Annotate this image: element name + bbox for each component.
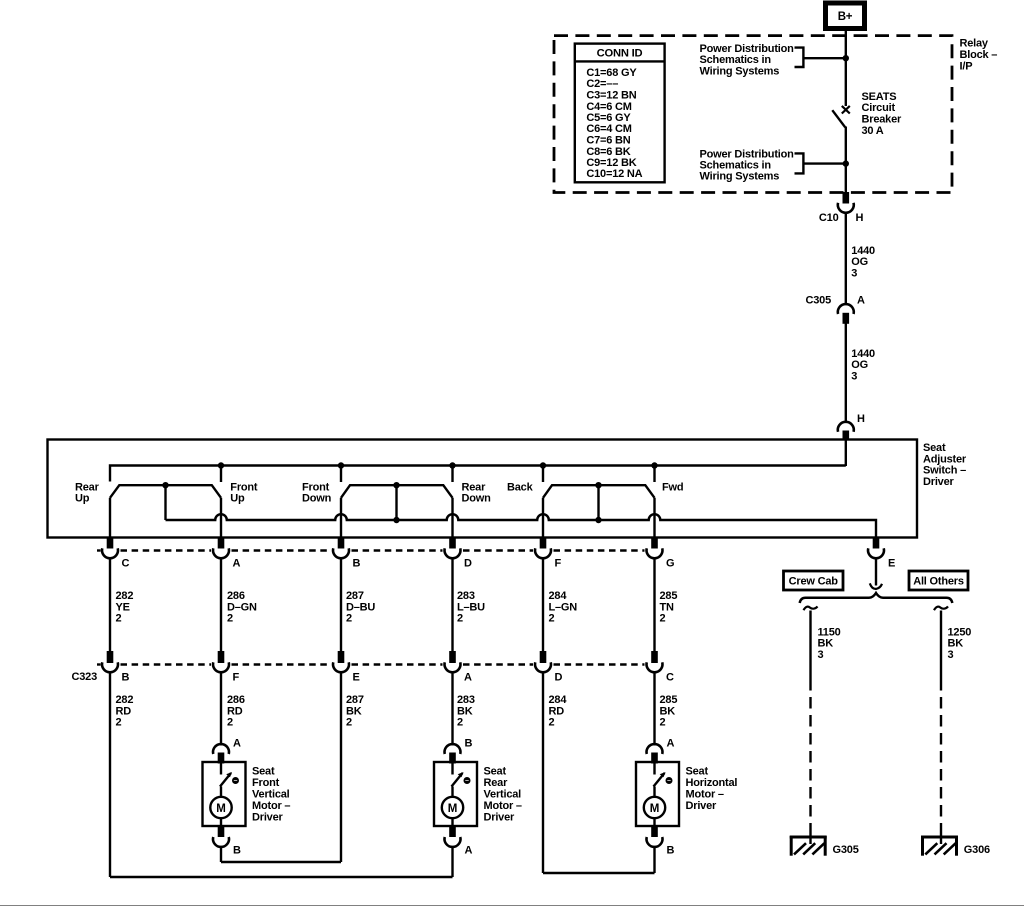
svg-text:C: C (666, 672, 674, 684)
svg-text:2: 2 (549, 613, 555, 625)
svg-text:A: A (464, 672, 472, 684)
svg-text:C8=6 BK: C8=6 BK (586, 146, 630, 158)
svg-text:BK: BK (948, 638, 964, 650)
svg-text:Down: Down (462, 493, 492, 505)
svg-text:BK: BK (818, 638, 834, 650)
svg-text:D–GN: D–GN (227, 601, 257, 613)
svg-text:3: 3 (851, 268, 857, 280)
svg-text:Down: Down (302, 493, 332, 505)
svg-text:G: G (666, 557, 674, 569)
svg-text:C: C (122, 557, 130, 569)
svg-text:Block –: Block – (960, 49, 998, 61)
svg-text:RD: RD (227, 705, 243, 717)
svg-text:Rear: Rear (484, 777, 509, 789)
svg-text:C4=6 CM: C4=6 CM (586, 101, 631, 113)
svg-text:M: M (650, 803, 659, 815)
svg-text:Motor –: Motor – (484, 800, 522, 812)
svg-text:A: A (233, 738, 241, 750)
svg-text:3: 3 (948, 649, 954, 661)
svg-text:C3=12 BN: C3=12 BN (586, 90, 636, 102)
svg-text:C1=68 GY: C1=68 GY (586, 67, 637, 79)
svg-text:B: B (122, 672, 130, 684)
svg-text:287: 287 (346, 694, 364, 706)
svg-text:B: B (233, 845, 241, 857)
svg-text:B: B (667, 845, 675, 857)
svg-text:Wiring Systems: Wiring Systems (700, 65, 780, 77)
svg-text:Horizontal: Horizontal (686, 777, 738, 789)
svg-text:Crew Cab: Crew Cab (789, 575, 839, 587)
svg-text:282: 282 (116, 590, 134, 602)
svg-text:TN: TN (660, 601, 675, 613)
svg-text:2: 2 (116, 613, 122, 625)
svg-text:E: E (888, 558, 895, 570)
svg-text:30 A: 30 A (862, 125, 884, 137)
svg-text:1440: 1440 (851, 245, 875, 257)
svg-text:C305: C305 (806, 295, 832, 307)
svg-text:283: 283 (457, 694, 475, 706)
svg-text:H: H (856, 212, 864, 224)
svg-text:A: A (857, 295, 865, 307)
svg-text:G305: G305 (833, 844, 859, 856)
svg-text:H: H (857, 413, 865, 425)
svg-text:Driver: Driver (252, 811, 284, 823)
svg-text:YE: YE (116, 601, 130, 613)
svg-text:2: 2 (346, 717, 352, 729)
svg-text:C9=12 BK: C9=12 BK (586, 157, 636, 169)
svg-text:C6=4 CM: C6=4 CM (586, 123, 631, 135)
svg-text:A: A (233, 557, 241, 569)
svg-text:2: 2 (346, 613, 352, 625)
svg-text:OG: OG (851, 256, 868, 268)
svg-text:Front: Front (252, 777, 280, 789)
svg-text:Fwd: Fwd (662, 481, 683, 493)
svg-text:B: B (465, 738, 473, 750)
svg-text:285: 285 (660, 590, 678, 602)
svg-text:Circuit: Circuit (862, 102, 896, 114)
svg-text:286: 286 (227, 590, 245, 602)
svg-text:RD: RD (549, 705, 565, 717)
svg-text:3: 3 (851, 371, 857, 383)
svg-text:B+: B+ (838, 11, 853, 23)
svg-text:All Others: All Others (913, 575, 964, 587)
svg-text:Adjuster: Adjuster (923, 453, 967, 465)
svg-text:OG: OG (851, 359, 868, 371)
svg-text:F: F (233, 672, 240, 684)
svg-text:Driver: Driver (923, 476, 955, 488)
svg-text:Front: Front (230, 481, 258, 493)
svg-text:BK: BK (346, 705, 362, 717)
svg-text:C2=––: C2=–– (586, 78, 618, 90)
svg-text:L–GN: L–GN (549, 601, 578, 613)
svg-text:Rear: Rear (75, 481, 100, 493)
svg-text:284: 284 (549, 694, 568, 706)
svg-text:284: 284 (549, 590, 568, 602)
svg-text:Vertical: Vertical (484, 789, 522, 801)
svg-text:A: A (465, 845, 473, 857)
svg-text:BK: BK (457, 705, 473, 717)
svg-text:C10: C10 (819, 212, 839, 224)
svg-text:Front: Front (302, 481, 330, 493)
svg-text:285: 285 (660, 694, 678, 706)
svg-text:Seat: Seat (686, 766, 709, 778)
svg-text:Seat: Seat (923, 442, 946, 454)
svg-text:282: 282 (116, 694, 134, 706)
svg-text:D–BU: D–BU (346, 601, 375, 613)
svg-text:286: 286 (227, 694, 245, 706)
svg-text:283: 283 (457, 590, 475, 602)
svg-text:1440: 1440 (851, 348, 875, 360)
svg-text:1150: 1150 (818, 626, 841, 638)
svg-text:2: 2 (660, 717, 666, 729)
svg-text:Motor –: Motor – (686, 789, 724, 801)
svg-text:A: A (667, 738, 675, 750)
svg-text:C5=6 GY: C5=6 GY (586, 112, 631, 124)
svg-text:Up: Up (75, 493, 90, 505)
svg-text:G306: G306 (964, 844, 990, 856)
svg-text:D: D (555, 672, 563, 684)
svg-text:RD: RD (116, 705, 132, 717)
svg-text:Seat: Seat (252, 766, 275, 778)
svg-text:Vertical: Vertical (252, 789, 290, 801)
svg-text:1250: 1250 (948, 626, 972, 638)
svg-text:Relay: Relay (960, 38, 989, 50)
svg-text:2: 2 (660, 613, 666, 625)
svg-text:F: F (555, 557, 562, 569)
svg-text:2: 2 (457, 613, 463, 625)
svg-text:Motor –: Motor – (252, 800, 290, 812)
svg-text:I/P: I/P (960, 60, 973, 72)
svg-text:2: 2 (227, 717, 233, 729)
svg-text:M: M (216, 803, 225, 815)
svg-text:287: 287 (346, 590, 364, 602)
svg-text:M: M (448, 803, 457, 815)
svg-text:L–BU: L–BU (457, 601, 485, 613)
svg-text:Rear: Rear (462, 481, 487, 493)
svg-text:BK: BK (660, 705, 676, 717)
svg-text:Schematics in: Schematics in (700, 54, 772, 66)
svg-text:2: 2 (549, 717, 555, 729)
svg-text:Driver: Driver (686, 800, 718, 812)
svg-text:Driver: Driver (484, 811, 516, 823)
svg-text:3: 3 (818, 649, 824, 661)
svg-text:Wiring Systems: Wiring Systems (700, 171, 780, 183)
svg-text:C7=6 BN: C7=6 BN (586, 135, 630, 147)
svg-text:SEATS: SEATS (862, 91, 897, 103)
svg-text:D: D (464, 557, 472, 569)
svg-text:2: 2 (227, 613, 233, 625)
svg-text:C10=12 NA: C10=12 NA (586, 168, 642, 180)
svg-text:Back: Back (507, 481, 534, 493)
svg-text:Switch –: Switch – (923, 465, 966, 477)
svg-text:Seat: Seat (484, 766, 507, 778)
svg-text:2: 2 (116, 717, 122, 729)
svg-text:E: E (353, 672, 360, 684)
svg-text:Breaker: Breaker (862, 114, 902, 126)
svg-text:C323: C323 (72, 671, 98, 683)
svg-text:Up: Up (230, 493, 245, 505)
svg-text:2: 2 (457, 717, 463, 729)
svg-text:CONN ID: CONN ID (597, 48, 643, 60)
svg-text:B: B (353, 557, 361, 569)
